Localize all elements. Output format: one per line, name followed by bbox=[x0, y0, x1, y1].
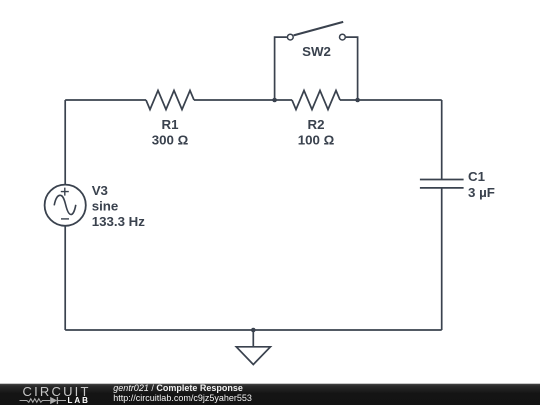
wire V3 to bottom-left corner bbox=[64, 226, 66, 330]
svg-text:http://circuitlab.com/c9jz5yah: http://circuitlab.com/c9jz5yaher553 bbox=[113, 393, 252, 403]
wire top-left segment bbox=[65, 99, 146, 101]
svg-text:300 Ω: 300 Ω bbox=[152, 132, 189, 147]
footer logo resistor squiggle bbox=[20, 399, 51, 403]
junction dot left of R2 bbox=[272, 98, 277, 103]
wire bottom horizontal bbox=[65, 329, 442, 331]
wire right vertical (top to C1) bbox=[441, 100, 443, 180]
ground triangle bbox=[236, 347, 270, 365]
svg-text:V3: V3 bbox=[92, 183, 108, 198]
ground stub bbox=[252, 330, 254, 347]
wire C1 to bottom-right corner bbox=[441, 188, 443, 330]
svg-text:sine: sine bbox=[92, 198, 119, 213]
V3 sine waveform bbox=[54, 195, 76, 214]
resistor R1 bbox=[146, 91, 194, 110]
capacitor C1 top plate bbox=[420, 179, 464, 181]
wire R2 to top-right corner bbox=[340, 99, 442, 101]
svg-text:gentr021 / Complete Response: gentr021 / Complete Response bbox=[113, 383, 243, 393]
switch SW2 blade bbox=[294, 22, 344, 36]
footer black bar bbox=[0, 384, 540, 405]
svg-text:3 µF: 3 µF bbox=[468, 185, 495, 200]
svg-text:C1: C1 bbox=[468, 169, 486, 184]
switch SW2 left stub bbox=[275, 37, 287, 100]
junction dot at ground bbox=[251, 328, 256, 333]
V3 plus sign bbox=[61, 188, 69, 196]
wire between R1 and R2 bbox=[194, 99, 292, 101]
svg-text:LAB: LAB bbox=[68, 396, 90, 405]
switch SW2 right terminal circle bbox=[340, 34, 346, 40]
switch SW2 right stub bbox=[346, 37, 358, 100]
switch SW2 left terminal circle bbox=[287, 34, 293, 40]
svg-text:133.3 Hz: 133.3 Hz bbox=[92, 214, 146, 229]
svg-text:R2: R2 bbox=[308, 117, 325, 132]
capacitor C1 bottom plate bbox=[420, 187, 464, 189]
svg-text:100 Ω: 100 Ω bbox=[298, 132, 335, 147]
V3 minus sign bbox=[61, 218, 69, 220]
svg-text:R1: R1 bbox=[162, 117, 180, 132]
voltage source V3 circle bbox=[45, 185, 86, 226]
footer logo diode symbol bbox=[50, 397, 57, 404]
svg-text:SW2: SW2 bbox=[302, 44, 331, 59]
junction dot right of R2 bbox=[355, 98, 360, 103]
resistor R2 bbox=[292, 91, 340, 110]
wire left vertical (top wire to V3) bbox=[64, 100, 66, 185]
